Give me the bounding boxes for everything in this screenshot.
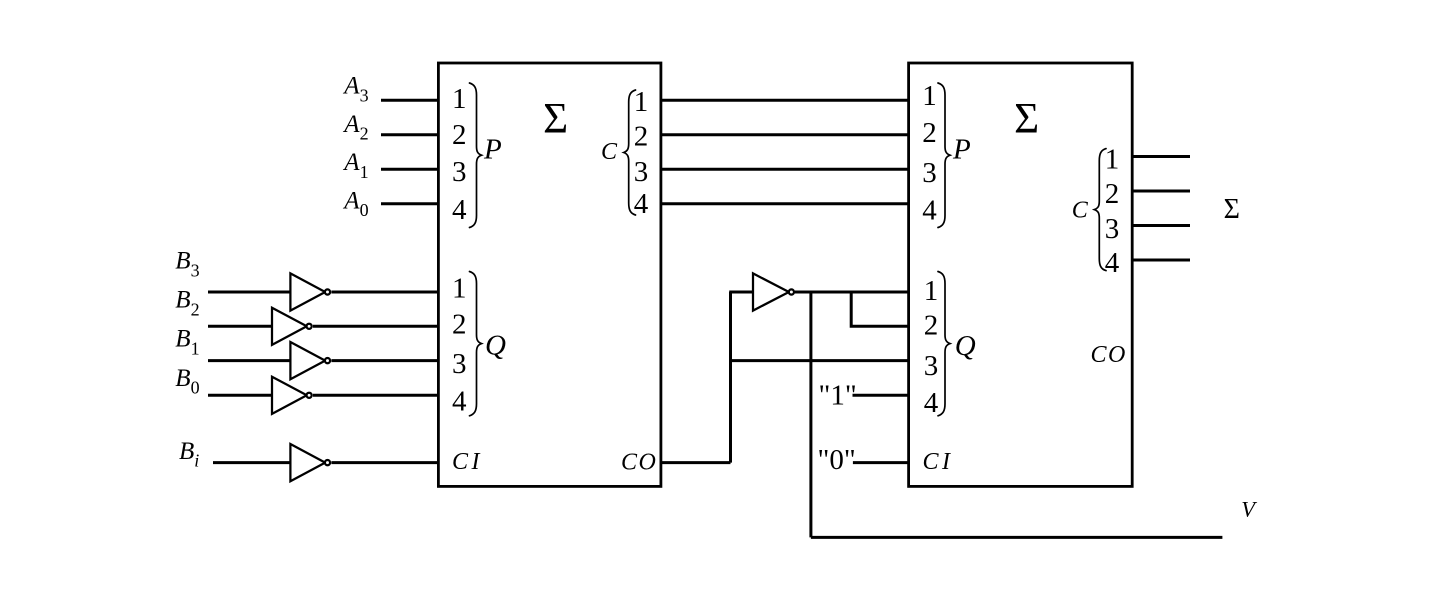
wire B2 input to inverter DD2 <box>208 325 272 328</box>
svg-text:CI: CI <box>452 449 483 475</box>
svg-text:1: 1 <box>924 275 939 307</box>
svg-text:3: 3 <box>922 157 937 189</box>
wire U2 C pin4 output <box>1132 259 1190 262</box>
svg-text:4: 4 <box>922 194 937 226</box>
svg-text:2: 2 <box>452 119 467 151</box>
svg-text:CO: CO <box>621 450 657 476</box>
svg-text:2: 2 <box>922 117 937 149</box>
wire inverter DD6 output to U2 Q pin1 <box>795 291 909 294</box>
brace U2 P group <box>938 83 950 228</box>
adder U2 body <box>909 63 1133 486</box>
svg-text:4: 4 <box>634 188 649 220</box>
svg-text:"1": "1" <box>819 380 857 412</box>
wire inverter DD2 output to U1 Q pin2 <box>313 325 438 328</box>
svg-text:1: 1 <box>452 83 467 115</box>
svg-text:P: P <box>483 134 502 166</box>
wire inverter DD3 output to U1 Q pin3 <box>331 359 438 362</box>
wire A2 to U1 P pin2 <box>381 133 438 136</box>
wire U2 C pin1 output <box>1132 155 1190 158</box>
svg-text:C: C <box>1072 198 1089 224</box>
wire constant 0 to U2 CI <box>853 461 909 464</box>
wire A0 to U1 P pin4 <box>381 202 438 205</box>
brace U1 Q group <box>470 272 482 416</box>
wire constant 1 to U2 Q pin4 <box>853 394 909 397</box>
svg-text:2: 2 <box>924 310 939 342</box>
svg-text:3: 3 <box>452 156 467 188</box>
svg-text:3: 3 <box>452 348 467 380</box>
svg-text:V: V <box>1241 497 1257 522</box>
svg-text:3: 3 <box>924 350 939 382</box>
wire CO riser node A <box>729 292 732 463</box>
wire U1 C pin1 to U2 P pin1 <box>661 99 909 102</box>
brace U2 C group <box>1094 149 1106 271</box>
svg-text:2: 2 <box>452 308 467 340</box>
svg-text:CO: CO <box>1091 342 1127 368</box>
svg-text:1: 1 <box>452 272 467 304</box>
wire U1 C pin3 to U2 P pin3 <box>661 168 909 171</box>
svg-text:4: 4 <box>452 386 467 418</box>
inverter DD6 <box>753 273 789 310</box>
wire B0 input to inverter DD4 <box>208 394 272 397</box>
inverter DD5 <box>290 444 325 481</box>
wire U2 C pin2 output <box>1132 190 1190 193</box>
svg-text:2: 2 <box>1105 178 1120 210</box>
svg-text:4: 4 <box>924 387 939 419</box>
svg-text:Σ: Σ <box>1014 96 1039 143</box>
brace U1 P group <box>470 83 482 228</box>
svg-text:CI: CI <box>923 449 954 475</box>
inverter DD2 <box>272 308 307 345</box>
svg-text:P: P <box>952 134 971 166</box>
svg-text:4: 4 <box>1105 247 1120 279</box>
wire inverter DD1 output to U1 Q pin1 <box>331 291 438 294</box>
wire A1 to U1 P pin3 <box>381 168 438 171</box>
inverter DD1 <box>290 273 325 310</box>
svg-text:4: 4 <box>452 194 467 226</box>
svg-text:3: 3 <box>1105 213 1120 245</box>
wire A3 to U1 P pin1 <box>381 99 438 102</box>
wire inverter DD5 output to U1 CI <box>331 461 438 464</box>
wire inverter DD4 output to U1 Q pin4 <box>313 394 438 397</box>
brace U2 Q group <box>938 272 950 416</box>
inverter DD3 <box>290 342 325 379</box>
svg-text:1: 1 <box>634 86 649 118</box>
wire U1 C pin2 to U2 P pin2 <box>661 133 909 136</box>
wire U2 C pin3 output <box>1132 224 1190 227</box>
wire branch drop to V line <box>809 292 812 537</box>
brace U1 C group <box>624 90 636 215</box>
wire B1 input to inverter DD3 <box>208 359 290 362</box>
svg-text:Σ: Σ <box>1224 194 1240 225</box>
svg-text:"0": "0" <box>818 444 856 476</box>
wire V line bottom <box>811 536 1223 539</box>
svg-text:Σ: Σ <box>543 95 568 142</box>
svg-text:2: 2 <box>634 121 649 153</box>
svg-text:3: 3 <box>634 156 649 188</box>
adder U1 body <box>438 63 661 486</box>
svg-text:Q: Q <box>955 330 976 362</box>
wire U1 CO output <box>661 461 731 464</box>
svg-text:Q: Q <box>485 330 506 362</box>
svg-text:1: 1 <box>1105 144 1120 176</box>
inverter DD4 <box>272 377 307 414</box>
wire node A branch to U2 Q pin3 <box>731 359 909 362</box>
wire node A to inverter DD6 input <box>729 291 753 294</box>
svg-text:1: 1 <box>922 80 937 112</box>
wire U1 C pin4 to U2 P pin4 <box>661 202 909 205</box>
wire B3 input to inverter DD1 <box>208 291 290 294</box>
svg-text:C: C <box>601 139 618 165</box>
wire branch drop to U2 Q pin2 <box>851 292 908 326</box>
wire Bi input to inverter DD5 <box>213 461 290 464</box>
